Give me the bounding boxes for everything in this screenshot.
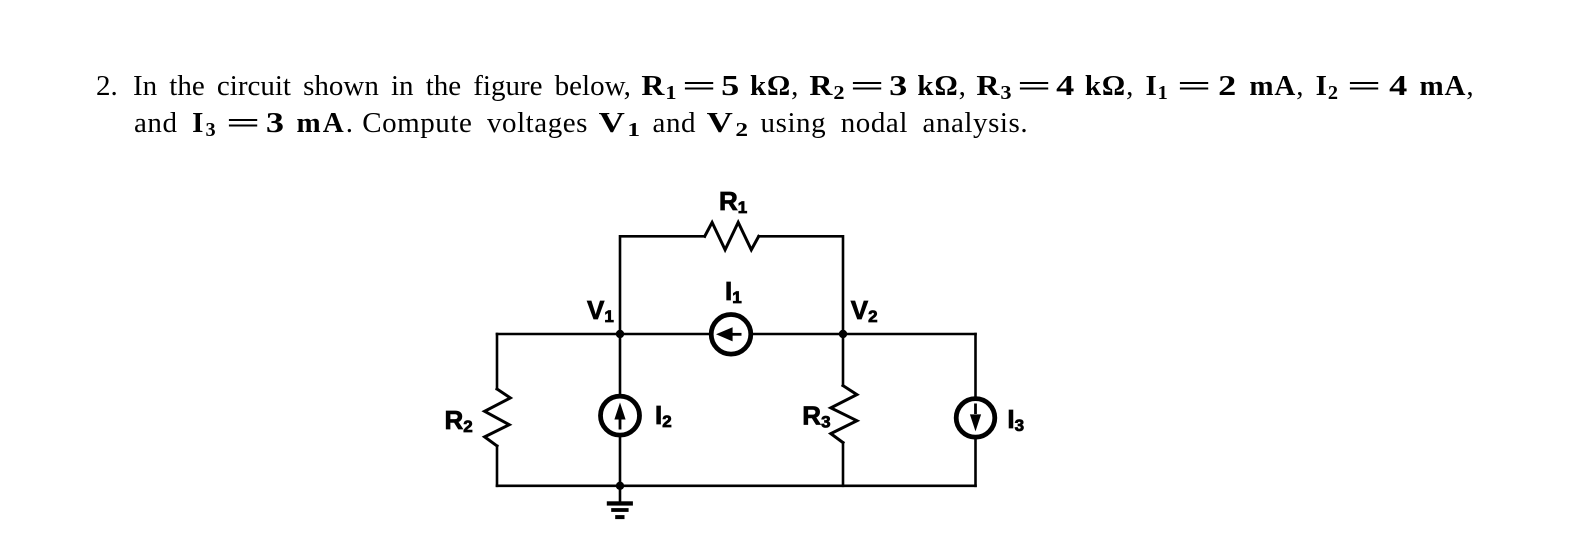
svg-text:I2: I2 [655, 400, 672, 431]
svg-text:V2: V2 [851, 295, 878, 326]
svg-text:R3: R3 [802, 401, 830, 432]
svg-text:R1: R1 [719, 186, 747, 217]
svg-text:I3: I3 [1007, 404, 1024, 435]
svg-text:V1: V1 [587, 295, 614, 326]
svg-text:R2: R2 [445, 405, 473, 436]
svg-text:I1: I1 [725, 276, 742, 307]
